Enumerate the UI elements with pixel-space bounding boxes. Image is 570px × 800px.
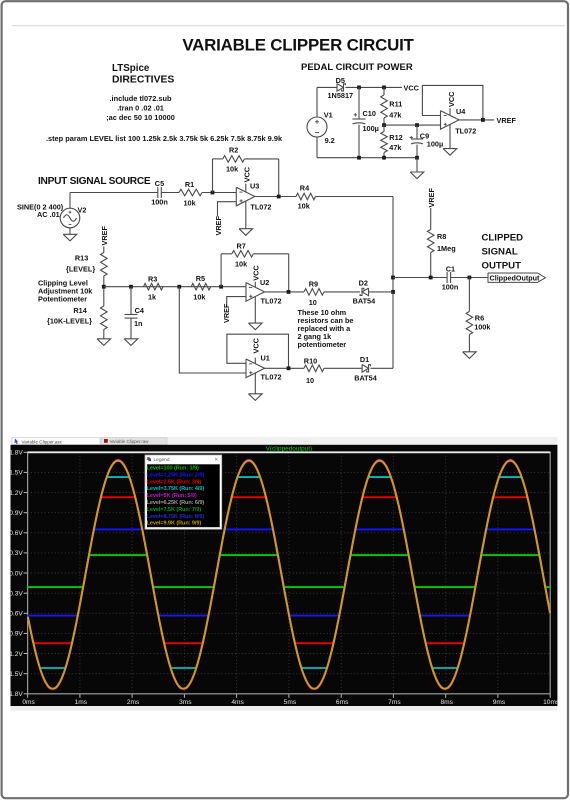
wire divider mid rail [384, 124, 441, 126]
resistor R12 [381, 125, 403, 158]
ground V2 [63, 228, 77, 241]
svg-text:.include tl072.sub: .include tl072.sub [109, 94, 172, 103]
svg-text:R5: R5 [196, 274, 205, 283]
svg-text:100n: 100n [151, 197, 168, 206]
wire U2 output [265, 291, 305, 293]
svg-text:LTSpice: LTSpice [112, 63, 150, 74]
svg-text:Level=7.5K (Run: 7/9): Level=7.5K (Run: 7/9) [147, 507, 202, 513]
svg-text:1.8V: 1.8V [9, 450, 23, 457]
node junction C4 [129, 285, 133, 289]
svg-text:TL072: TL072 [261, 372, 282, 381]
svg-text:7ms: 7ms [388, 699, 401, 706]
svg-text:VCC: VCC [251, 337, 260, 353]
svg-text:100µ: 100µ [427, 140, 443, 149]
svg-text:R12: R12 [389, 133, 402, 142]
ground C4 [124, 339, 138, 346]
svg-text:ClippedOutput: ClippedOutput [490, 274, 541, 283]
wire U1 feedback loop [227, 334, 289, 368]
svg-text:V2: V2 [78, 206, 87, 215]
svg-text:Variable Clipper.asc: Variable Clipper.asc [22, 439, 63, 444]
resistor R8 [427, 208, 455, 278]
trace run3 Level=2.5K red [28, 497, 550, 643]
trace run4 Level=3.75K cyan [28, 477, 550, 668]
svg-text:Level=8.75K (Run: 8/9): Level=8.75K (Run: 8/9) [147, 514, 205, 520]
tab icon 2 [104, 439, 108, 443]
svg-text:10: 10 [309, 298, 317, 307]
svg-text:-0.3V: -0.3V [7, 590, 23, 597]
svg-text:Level=100 (Run: 1/9): Level=100 (Run: 1/9) [147, 466, 199, 472]
svg-text:D5: D5 [336, 76, 345, 85]
svg-text:R11: R11 [389, 99, 402, 108]
svg-text:AC .01: AC .01 [37, 210, 60, 219]
op-amp U3 [236, 166, 271, 211]
svg-text:BAT54: BAT54 [353, 297, 377, 306]
wire V2 to C5 [70, 192, 158, 194]
wire R4 to right bus [316, 196, 394, 198]
svg-text:R4: R4 [300, 184, 310, 193]
ground R6 [463, 352, 477, 359]
wire D1 to bus [371, 367, 394, 369]
wire C5 to R1 [161, 192, 179, 194]
svg-text:SIGNAL: SIGNAL [482, 246, 518, 257]
resistor R1 [179, 180, 202, 208]
node junction bus output row [391, 276, 395, 280]
svg-text:INPUT SIGNAL SOURCE: INPUT SIGNAL SOURCE [38, 176, 151, 187]
resistor R9 [304, 280, 324, 307]
svg-text:U4: U4 [456, 107, 466, 116]
wire U2 noninverting to VREF [227, 297, 246, 307]
wire branch to U1 noninverting [179, 287, 246, 373]
svg-text:D2: D2 [359, 279, 368, 288]
svg-text:10ms: 10ms [543, 699, 560, 706]
svg-text:-0.9V: -0.9V [7, 631, 23, 638]
node junction R11 R12 [382, 123, 386, 127]
node junction R12 bottom [382, 156, 386, 160]
wire U1 output [265, 367, 305, 369]
svg-text:U2: U2 [260, 278, 269, 287]
svg-text:VCC: VCC [242, 166, 251, 182]
svg-text:Level=9.9K (Run: 9/9): Level=9.9K (Run: 9/9) [147, 521, 202, 527]
svg-text:100k: 100k [474, 322, 491, 331]
node junction C9 bottom [415, 156, 419, 160]
plot axis ticks and labels [7, 450, 560, 706]
svg-text:Level=2.5K (Run: 3/9): Level=2.5K (Run: 3/9) [147, 479, 202, 485]
svg-text:-1.5V: -1.5V [7, 671, 23, 678]
svg-text:0.3V: 0.3V [9, 550, 23, 557]
capacitor C10 [353, 87, 379, 157]
legend entries [147, 466, 205, 527]
node junction U1 output [287, 366, 291, 370]
svg-text:100µ: 100µ [363, 124, 379, 133]
svg-text:0.0V: 0.0V [9, 570, 23, 577]
wire V1 top to D5 [317, 86, 337, 88]
svg-text:1.2V: 1.2V [9, 490, 23, 497]
svg-text:4ms: 4ms [231, 699, 244, 706]
ground power rail [410, 158, 424, 179]
svg-text:R3: R3 [148, 275, 157, 284]
resistor R7 feedback [221, 242, 289, 292]
schottky diode D5 [328, 76, 354, 100]
svg-text:R10: R10 [304, 357, 317, 366]
svg-text:OUTPUT: OUTPUT [482, 260, 522, 271]
svg-text:VREF: VREF [427, 187, 436, 207]
svg-text:Level=3.75K (Run: 4/9): Level=3.75K (Run: 4/9) [147, 486, 205, 492]
node junction to U1 branch [177, 285, 181, 289]
svg-text:Potentiometer: Potentiometer [38, 294, 87, 303]
svg-text:8ms: 8ms [440, 699, 453, 706]
svg-text:0.6V: 0.6V [9, 530, 23, 537]
svg-text:10k: 10k [298, 202, 311, 211]
svg-text:47k: 47k [389, 111, 402, 120]
wire R10 to D1 [324, 367, 362, 369]
svg-text:2ms: 2ms [127, 699, 140, 706]
trace run1 Level=100 green [28, 555, 550, 587]
schottky diode D1 [354, 355, 378, 382]
svg-text:VCC: VCC [251, 265, 260, 281]
node junction R11 top [382, 86, 386, 90]
node junction C10 bottom [357, 156, 361, 160]
plot gridlines [28, 452, 551, 694]
resistor R11 [381, 87, 403, 125]
svg-text:VARIABLE CLIPPER CIRCUIT: VARIABLE CLIPPER CIRCUIT [182, 36, 414, 55]
svg-text:C1: C1 [446, 265, 455, 274]
plot window tab bar [11, 437, 558, 445]
plot bottom strip [11, 706, 558, 711]
svg-text:U1: U1 [261, 354, 270, 363]
op-amp U4 [441, 91, 477, 135]
wire power bottom rail [317, 157, 417, 159]
svg-text:PEDAL CIRCUIT POWER: PEDAL CIRCUIT POWER [301, 62, 413, 73]
resistor R2 feedback [213, 146, 279, 197]
svg-text:VREF: VREF [497, 116, 517, 125]
wire R1 to U3 [202, 192, 236, 194]
svg-text:Legend: Legend [154, 457, 170, 463]
node junction R6 top [468, 276, 472, 280]
svg-text:10: 10 [306, 376, 314, 385]
svg-text:0.9V: 0.9V [9, 510, 23, 517]
output flag ClippedOutput [488, 273, 546, 283]
svg-text:D1: D1 [360, 355, 369, 364]
svg-text:{LEVEL}: {LEVEL} [66, 265, 95, 274]
wire U3 noninverting to VREF [218, 202, 237, 217]
svg-text:1N5817: 1N5817 [328, 91, 354, 100]
svg-text:5ms: 5ms [284, 699, 297, 706]
wire D2 to bus [369, 291, 394, 293]
svg-text:R1: R1 [185, 180, 194, 189]
svg-text:VCC: VCC [447, 91, 456, 107]
svg-text:1Meg: 1Meg [437, 244, 456, 253]
svg-text:100n: 100n [442, 283, 459, 292]
svg-text:TL072: TL072 [250, 202, 271, 211]
svg-text:TL072: TL072 [455, 126, 476, 135]
node junction U4 output [481, 118, 485, 122]
svg-text:VREF: VREF [100, 225, 109, 245]
svg-text:6ms: 6ms [336, 699, 349, 706]
wire U4 output [459, 119, 494, 121]
svg-text:Level=6.25K (Run: 6/9): Level=6.25K (Run: 6/9) [147, 500, 205, 506]
svg-text:-0.6V: -0.6V [7, 611, 23, 618]
ground U3 [239, 201, 253, 235]
trace run5 Level=5K magenta [28, 460, 550, 689]
resistor R14 [47, 287, 107, 339]
wire U3 output [255, 196, 296, 198]
svg-text:Level=1.25K (Run: 2/9): Level=1.25K (Run: 2/9) [147, 472, 205, 478]
svg-text:1.5V: 1.5V [9, 470, 23, 477]
voltage source V2 sine [17, 193, 86, 228]
svg-text:10k: 10k [184, 199, 197, 208]
svg-text:DIRECTIVES: DIRECTIVES [112, 75, 174, 86]
svg-text:;ac dec 50 10 10000: ;ac dec 50 10 10000 [106, 113, 175, 122]
svg-text:CLIPPED: CLIPPED [482, 232, 524, 243]
svg-text:1ms: 1ms [75, 699, 88, 706]
svg-text:Level=5K (Run: 5/9): Level=5K (Run: 5/9) [147, 493, 197, 499]
node junction R7 feedback [219, 285, 223, 289]
node junction R8 bottom [429, 276, 433, 280]
node junction C10 top [357, 86, 361, 90]
wire right vertical bus [392, 197, 394, 369]
capacitor C9 [410, 125, 444, 158]
svg-text:VREF: VREF [222, 303, 231, 323]
wire level row [104, 286, 246, 288]
legend window [145, 455, 222, 529]
ground U4 [443, 125, 457, 156]
resistor R13 [66, 247, 107, 287]
svg-text:V1: V1 [324, 111, 333, 120]
top separator line [12, 25, 565, 27]
svg-text:{10K-LEVEL}: {10K-LEVEL} [47, 317, 92, 326]
plot black background [11, 445, 558, 706]
svg-text:10k: 10k [193, 293, 206, 302]
svg-text:0ms: 0ms [22, 699, 35, 706]
svg-text:VCC: VCC [404, 83, 420, 92]
capacitor C4 [125, 287, 145, 339]
wire D5 to VCC [346, 86, 403, 88]
plot axis border [28, 452, 551, 694]
svg-text:C5: C5 [155, 179, 164, 188]
resistor R4 [296, 184, 316, 211]
svg-text:C10: C10 [363, 109, 376, 118]
node junction U3 inverting input [211, 191, 215, 195]
node junction U2 output [287, 290, 291, 294]
svg-text:10k: 10k [235, 260, 248, 269]
trace run2 Level=1.25K blue [28, 529, 550, 615]
node junction C9 top [415, 123, 419, 127]
trace run9 Level=9.9K dark yellow [28, 461, 550, 689]
svg-text:9.2: 9.2 [325, 136, 335, 145]
capacitor C5 [151, 179, 168, 206]
svg-text:R7: R7 [237, 242, 246, 251]
node junction bus D2 row [391, 290, 395, 294]
wire U4 feedback [422, 85, 483, 120]
svg-text:R8: R8 [437, 232, 446, 241]
resistor R5 [191, 274, 210, 302]
resistor R6 [466, 278, 491, 352]
op-amp U1 [246, 337, 282, 381]
svg-text:potentiometer: potentiometer [298, 340, 347, 349]
capacitor C1 [442, 265, 459, 292]
svg-text:10k: 10k [226, 165, 239, 174]
ground R14 [97, 339, 111, 346]
resistor R3 [144, 275, 164, 302]
svg-text:1n: 1n [134, 319, 143, 328]
svg-text:.step param LEVEL list 100 1.2: .step param LEVEL list 100 1.25k 2.5k 3.… [46, 134, 283, 143]
op-amp U2 [246, 265, 282, 306]
voltage source V1 [307, 87, 335, 157]
tab icon 1 [14, 439, 18, 445]
ground U1 [249, 373, 263, 400]
svg-text:3ms: 3ms [179, 699, 192, 706]
svg-text:C4: C4 [135, 306, 145, 315]
svg-text:47k: 47k [389, 143, 402, 152]
ground U2 [249, 297, 263, 330]
node junction R13 R14 [102, 285, 106, 289]
svg-text:-1.8V: -1.8V [7, 691, 23, 698]
svg-text:R2: R2 [229, 146, 238, 155]
svg-text:TL072: TL072 [261, 297, 282, 306]
svg-text:VREF: VREF [214, 215, 223, 235]
wire R9 to D2 [324, 291, 360, 293]
svg-text:.tran 0 .02 .01: .tran 0 .02 .01 [117, 104, 164, 113]
svg-text:9ms: 9ms [493, 699, 506, 706]
svg-text:BAT54: BAT54 [354, 374, 378, 383]
wire C1 to flag [451, 277, 488, 279]
svg-text:R13: R13 [75, 254, 88, 263]
schottky diode D2 [353, 279, 377, 306]
resistor R10 [304, 357, 324, 386]
svg-text:R14: R14 [73, 306, 87, 315]
svg-text:-1.2V: -1.2V [7, 651, 23, 658]
svg-text:1k: 1k [148, 293, 157, 302]
svg-text:×: × [215, 458, 219, 464]
svg-text:U3: U3 [250, 182, 259, 191]
svg-text:R9: R9 [309, 280, 318, 289]
svg-text:Variable Clipper.raw: Variable Clipper.raw [110, 439, 150, 444]
node junction U3 output [277, 195, 281, 199]
wire output row [393, 277, 447, 279]
